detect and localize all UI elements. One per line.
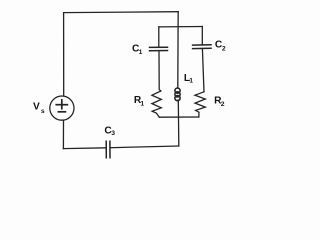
capacitor C2 <box>193 45 211 49</box>
wire feed vertical into tank <box>177 12 179 27</box>
capacitor C3 <box>106 141 110 158</box>
wire C2 to R2 lead <box>202 49 204 92</box>
wire C2 top lead <box>201 27 203 45</box>
wire left vertical (Vs top to top-left corner) <box>63 13 65 96</box>
wire bottom left segment (C3 to corner below Vs) <box>63 147 106 150</box>
label C2 <box>215 39 226 52</box>
voltage source Vs <box>50 96 74 120</box>
inductor L1 coil <box>175 88 180 101</box>
resistor R1 <box>152 91 161 117</box>
wire bottom bus of tank <box>159 116 199 118</box>
svg-text:1: 1 <box>139 49 143 56</box>
label Vs <box>33 102 45 115</box>
wire top bus of tank <box>159 26 203 28</box>
svg-text:3: 3 <box>111 130 115 137</box>
label C3 <box>104 125 115 137</box>
wire bottom right segment (corner to C3) <box>110 146 179 148</box>
capacitor C1 <box>150 47 168 51</box>
svg-text:s: s <box>41 108 45 115</box>
label L1 <box>184 73 193 85</box>
wire C1 top lead <box>158 27 160 47</box>
svg-text:1: 1 <box>189 78 193 85</box>
wire L1 bottom lead to bottom-right corner <box>177 100 180 146</box>
label R1 <box>134 95 145 108</box>
wire L1 top lead <box>177 27 179 88</box>
svg-text:V: V <box>33 102 40 113</box>
wire C1 to R1 lead <box>159 51 161 91</box>
wire Vs bottom lead <box>62 120 64 148</box>
wire top horizontal <box>64 11 179 14</box>
label R2 <box>214 96 225 109</box>
svg-text:2: 2 <box>222 46 226 53</box>
label C1 <box>132 44 143 56</box>
svg-text:1: 1 <box>140 101 144 108</box>
resistor R2 <box>195 92 205 117</box>
svg-text:2: 2 <box>221 101 225 108</box>
